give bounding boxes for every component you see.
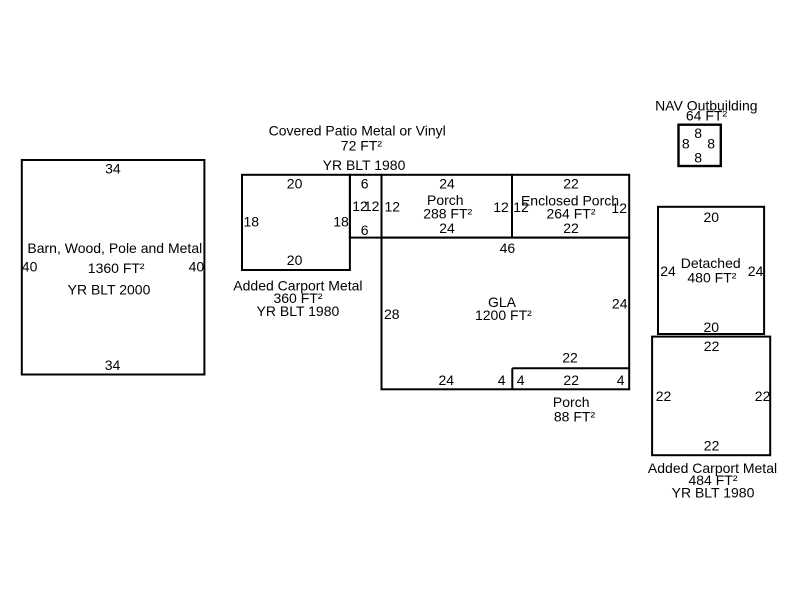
svg-text:24: 24 bbox=[439, 220, 455, 236]
porch 88 notch horizontal wall bbox=[512, 367, 629, 369]
svg-text:1200 FT²: 1200 FT² bbox=[475, 307, 532, 323]
enclosed porch outline bbox=[512, 175, 629, 238]
svg-text:20: 20 bbox=[704, 319, 720, 335]
svg-text:8: 8 bbox=[694, 125, 702, 141]
svg-text:24: 24 bbox=[439, 372, 455, 388]
svg-text:22: 22 bbox=[656, 388, 672, 404]
svg-text:4: 4 bbox=[617, 372, 625, 388]
porch 288 outline bbox=[382, 175, 513, 238]
svg-text:4: 4 bbox=[517, 372, 525, 388]
svg-text:22: 22 bbox=[704, 338, 720, 354]
svg-text:480 FT²: 480 FT² bbox=[687, 270, 736, 286]
porch 88 notch vertical wall bbox=[511, 368, 513, 389]
svg-text:6: 6 bbox=[361, 222, 369, 238]
barn outline bbox=[22, 160, 205, 375]
GLA outline bbox=[382, 238, 630, 390]
svg-text:22: 22 bbox=[755, 388, 771, 404]
svg-text:Barn, Wood, Pole and Metal: Barn, Wood, Pole and Metal bbox=[27, 240, 202, 256]
svg-text:YR BLT 1980: YR BLT 1980 bbox=[257, 303, 340, 319]
svg-text:12: 12 bbox=[364, 198, 380, 214]
svg-text:34: 34 bbox=[105, 160, 121, 176]
svg-text:72 FT²: 72 FT² bbox=[341, 138, 383, 154]
svg-text:8: 8 bbox=[682, 136, 690, 152]
svg-text:22: 22 bbox=[563, 372, 579, 388]
svg-text:6: 6 bbox=[361, 176, 369, 192]
NAV outbuilding outline bbox=[679, 125, 721, 166]
svg-text:8: 8 bbox=[694, 150, 702, 166]
svg-text:20: 20 bbox=[704, 209, 720, 225]
svg-text:28: 28 bbox=[384, 306, 400, 322]
svg-text:18: 18 bbox=[333, 214, 349, 230]
svg-text:20: 20 bbox=[287, 175, 303, 191]
svg-text:18: 18 bbox=[244, 214, 260, 230]
svg-text:YR BLT 1980: YR BLT 1980 bbox=[672, 485, 755, 501]
added carport metal (left) outline bbox=[242, 175, 350, 270]
svg-text:20: 20 bbox=[287, 252, 303, 268]
svg-text:8: 8 bbox=[707, 136, 715, 152]
svg-text:Covered Patio Metal or Vinyl: Covered Patio Metal or Vinyl bbox=[269, 123, 446, 139]
svg-text:YR BLT 2000: YR BLT 2000 bbox=[68, 282, 151, 298]
svg-text:22: 22 bbox=[562, 350, 578, 366]
svg-text:24: 24 bbox=[612, 296, 628, 312]
svg-text:46: 46 bbox=[500, 240, 516, 256]
svg-text:64 FT²: 64 FT² bbox=[686, 108, 728, 124]
added carport metal (right) outline bbox=[652, 337, 770, 456]
svg-text:1360 FT²: 1360 FT² bbox=[88, 260, 145, 276]
svg-text:24: 24 bbox=[660, 263, 676, 279]
svg-text:YR BLT 1980: YR BLT 1980 bbox=[323, 157, 406, 173]
svg-text:34: 34 bbox=[105, 357, 121, 373]
svg-text:24: 24 bbox=[439, 175, 455, 191]
svg-text:88 FT²: 88 FT² bbox=[554, 408, 596, 424]
svg-text:40: 40 bbox=[189, 259, 205, 275]
svg-text:40: 40 bbox=[22, 259, 38, 275]
svg-text:22: 22 bbox=[704, 438, 720, 454]
svg-text:12: 12 bbox=[513, 199, 529, 215]
svg-text:22: 22 bbox=[563, 175, 579, 191]
covered patio outline bbox=[350, 175, 382, 238]
svg-text:12: 12 bbox=[611, 200, 627, 216]
detached outline bbox=[658, 207, 764, 334]
svg-text:22: 22 bbox=[563, 220, 579, 236]
svg-text:12: 12 bbox=[493, 199, 509, 215]
svg-text:24: 24 bbox=[748, 263, 764, 279]
svg-text:4: 4 bbox=[498, 372, 506, 388]
svg-text:12: 12 bbox=[385, 198, 401, 214]
